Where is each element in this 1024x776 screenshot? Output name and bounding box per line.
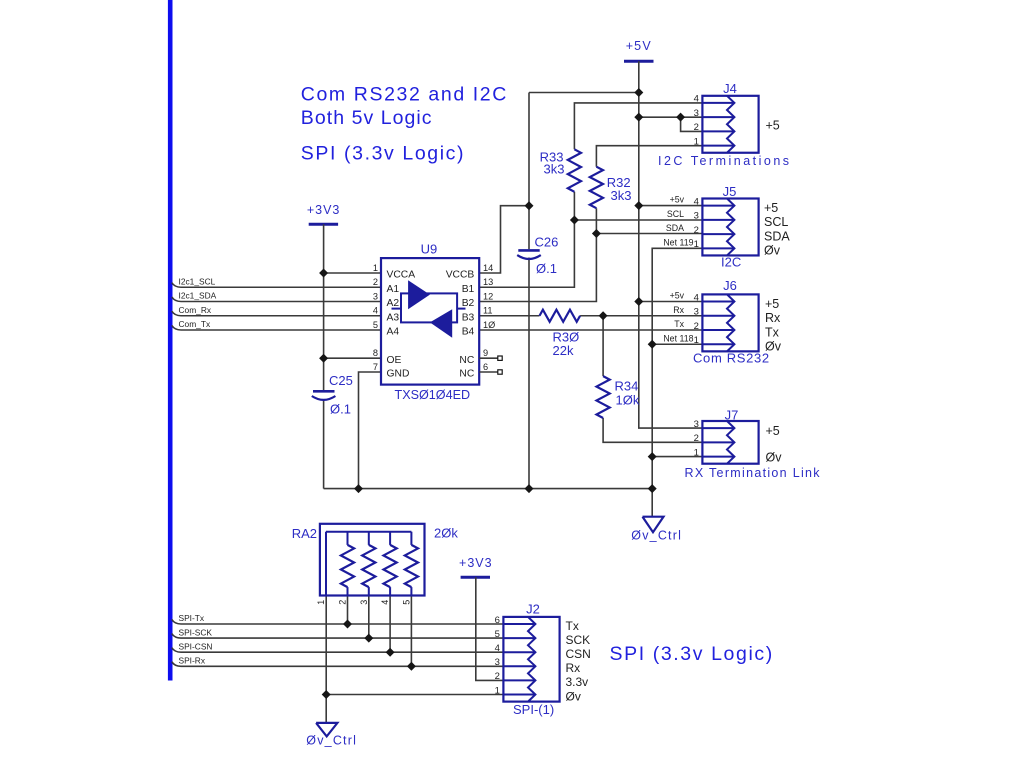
wire NC pin9 stub: [479, 356, 502, 360]
label J6 Øv: [765, 340, 782, 354]
svg-text:Øv: Øv: [766, 451, 783, 465]
label RX Termination Link: [685, 466, 821, 480]
label SPI-(1): [513, 702, 554, 717]
wire net rail: [652, 248, 702, 516]
wire +5V rail: [639, 61, 703, 428]
label J5: [723, 184, 737, 199]
junction 18: [364, 634, 373, 643]
resistor R32: [590, 167, 603, 209]
svg-text:Tx: Tx: [674, 319, 684, 329]
svg-text:3k3: 3k3: [611, 188, 632, 203]
svg-text:+3V3: +3V3: [459, 556, 493, 570]
label J2 Øv: [566, 689, 581, 703]
label J7 0v: [766, 451, 783, 465]
note Com RS232 and I2C: [301, 84, 508, 106]
label J2 SCK: [566, 633, 591, 647]
svg-text:Ø.1: Ø.1: [330, 402, 351, 417]
label J4: [723, 81, 737, 96]
wire 3V3 rail upper: [323, 224, 325, 390]
wire VCCB riser: [479, 206, 529, 273]
label J2 CSN: [566, 647, 591, 661]
note SPI (3.3v Logic) bottom: [610, 643, 774, 665]
connector J6: [694, 292, 759, 351]
junction 10: [599, 311, 608, 320]
label RA2: [292, 526, 317, 541]
wire bottom rail: [324, 488, 653, 490]
svg-text:VCCA: VCCA: [387, 270, 416, 281]
label J2 Rx: [566, 661, 581, 675]
svg-text:+5v: +5v: [670, 291, 685, 301]
svg-text:SPI-Rx: SPI-Rx: [179, 656, 206, 666]
svg-text:5: 5: [495, 629, 500, 640]
svg-text:Rx: Rx: [765, 311, 781, 325]
svg-text:1: 1: [694, 136, 699, 147]
svg-text:Øv: Øv: [566, 689, 581, 703]
wire J4 pin1 to R32: [596, 146, 702, 167]
svg-text:1: 1: [694, 239, 699, 250]
wire SCL: [574, 219, 702, 221]
wire left blue bus bar: [168, 0, 173, 681]
svg-text:Øv: Øv: [765, 340, 782, 354]
svg-text:2: 2: [495, 671, 500, 682]
label J5 I2C: [721, 255, 741, 270]
svg-text:SPI-SCK: SPI-SCK: [179, 627, 213, 637]
svg-text:SPI-Tx: SPI-Tx: [179, 613, 205, 623]
junction 5: [634, 201, 643, 210]
svg-text:C25: C25: [329, 373, 353, 388]
wire RA2 pin4 lead: [389, 596, 391, 653]
svg-text:TXSØ1Ø4ED: TXSØ1Ø4ED: [395, 388, 471, 402]
connector J2: [495, 615, 560, 702]
svg-text:SPI (3.3v Logic): SPI (3.3v Logic): [610, 643, 774, 665]
svg-text:SCK: SCK: [566, 633, 591, 647]
svg-text:J2: J2: [526, 602, 540, 617]
label C26 value: [536, 261, 557, 276]
svg-text:1: 1: [694, 335, 699, 346]
label R33: [540, 150, 564, 165]
junction 15: [525, 484, 534, 493]
svg-text:4: 4: [373, 306, 378, 316]
wire J7 pin1: [652, 456, 702, 458]
svg-text:A2: A2: [387, 298, 400, 309]
wire NC pin6 stub: [479, 370, 502, 374]
svg-text:SPI (3.3v Logic): SPI (3.3v Logic): [301, 143, 465, 165]
label J6 pin Rx: [673, 305, 684, 315]
svg-text:I2C Terminations: I2C Terminations: [658, 154, 792, 168]
label R34: [615, 379, 639, 394]
svg-text:8: 8: [373, 348, 378, 358]
svg-text:3: 3: [373, 291, 378, 301]
wire B4 to J6 pin2: [479, 329, 702, 331]
svg-text:9: 9: [483, 348, 488, 358]
label J6 pin Net 118: [663, 333, 693, 343]
label SPI-Rx: [179, 656, 206, 666]
svg-text:Com RS232: Com RS232: [693, 351, 770, 366]
svg-text:2: 2: [338, 600, 348, 605]
svg-text:1Ø: 1Ø: [483, 320, 495, 330]
wire J5 pin4: [639, 205, 703, 207]
svg-text:A4: A4: [387, 327, 400, 338]
svg-text:+3V3: +3V3: [307, 203, 341, 217]
resistor R34: [597, 376, 610, 418]
label J5 pin Net 119: [663, 238, 693, 248]
svg-text:1: 1: [316, 600, 326, 605]
label SPI-CSN: [179, 641, 213, 651]
label J5 pin +5v: [670, 195, 685, 205]
svg-text:B2: B2: [462, 298, 475, 309]
power +3V3 upper bar: [309, 223, 338, 226]
svg-text:1: 1: [694, 447, 699, 458]
svg-text:22k: 22k: [553, 343, 574, 358]
svg-text:RA2: RA2: [292, 526, 317, 541]
wire top link: [529, 92, 639, 94]
label 0v_Ctrl lower: [306, 734, 357, 748]
junction 20: [407, 662, 416, 671]
resistor array RA2: [316, 524, 425, 605]
svg-text:B4: B4: [462, 327, 475, 338]
junction 11: [648, 340, 657, 349]
wire 3V3 rail lower: [323, 400, 325, 489]
svg-text:A1: A1: [387, 284, 400, 295]
svg-text:4: 4: [495, 643, 500, 654]
label SPI-SCK: [179, 627, 213, 637]
svg-text:NC: NC: [459, 355, 474, 366]
label J2: [526, 602, 540, 617]
wire R33 to B1: [479, 192, 574, 287]
svg-text:+5: +5: [764, 201, 778, 215]
junction 6: [570, 216, 579, 225]
label U9: [421, 242, 438, 257]
power +3V3 lower label: [459, 556, 493, 570]
wire R34 to J7 pin2: [603, 418, 702, 442]
label J2 Tx: [566, 619, 579, 633]
svg-text:3: 3: [359, 600, 369, 605]
label I2c1_SCL: [179, 276, 216, 286]
svg-text:SDA: SDA: [764, 229, 790, 243]
note Both 5v Logic: [301, 107, 433, 129]
junction 14: [354, 484, 363, 493]
wire J4 pin3: [639, 116, 703, 118]
wire RA2 pin5 lead: [410, 596, 412, 667]
junction 8: [319, 269, 328, 278]
svg-text:4: 4: [694, 292, 699, 303]
junction 21: [322, 690, 331, 699]
wire SPI-Tx: [172, 619, 504, 624]
label J6 pin Tx: [674, 319, 684, 329]
label R30: [553, 330, 580, 345]
svg-text:B3: B3: [462, 312, 475, 323]
label Com RS232: [693, 351, 770, 366]
power +3V3 lower bar: [461, 576, 490, 579]
IC U9 TXS0104ED: [373, 258, 495, 385]
power +5V bar: [624, 60, 654, 63]
svg-text:+5: +5: [766, 119, 780, 133]
svg-text:Both 5v Logic: Both 5v Logic: [301, 107, 433, 129]
svg-text:Rx: Rx: [673, 305, 684, 315]
svg-text:2: 2: [694, 433, 699, 444]
wire C26 rail lower: [528, 258, 530, 489]
svg-text:2: 2: [694, 122, 699, 133]
svg-text:R34: R34: [615, 379, 639, 394]
svg-text:Com RS232 and I2C: Com RS232 and I2C: [301, 84, 508, 106]
label J6 Tx: [765, 325, 780, 339]
svg-text:SCL: SCL: [667, 209, 684, 219]
svg-text:3: 3: [694, 307, 699, 318]
svg-text:J6: J6: [723, 278, 737, 293]
svg-text:4: 4: [694, 94, 699, 105]
wire OE: [324, 357, 381, 359]
wire R30 to R34: [602, 316, 604, 376]
svg-text:11: 11: [483, 306, 493, 316]
wire RA2 pin2 lead: [347, 596, 349, 625]
label I2c1_SDA: [179, 291, 217, 301]
svg-text:J4: J4: [723, 81, 737, 96]
svg-text:I2c1_SDA: I2c1_SDA: [179, 291, 217, 301]
wire Com_Rx: [172, 311, 381, 316]
svg-text:1: 1: [495, 685, 500, 696]
label J7: [725, 408, 739, 423]
svg-text:12: 12: [483, 291, 493, 301]
connector J5: [694, 196, 759, 255]
junction 17: [343, 620, 352, 629]
svg-text:Øv_Ctrl: Øv_Ctrl: [631, 529, 682, 543]
label SPI-Tx: [179, 613, 205, 623]
wire R32 to B2: [479, 208, 596, 301]
power +5V label: [626, 39, 652, 53]
note SPI (3.3v Logic) top: [301, 143, 465, 165]
wire J6 pin1: [652, 343, 702, 345]
svg-text:C26: C26: [535, 235, 559, 250]
wire I2c1_SDA: [172, 297, 381, 302]
label J5 +5: [764, 201, 778, 215]
label I2C Terminations: [658, 154, 792, 168]
svg-text:OE: OE: [387, 355, 402, 366]
svg-text:J7: J7: [725, 408, 739, 423]
junction 13: [648, 452, 657, 461]
svg-text:NC: NC: [459, 369, 474, 380]
svg-text:Tx: Tx: [566, 619, 579, 633]
svg-text:7: 7: [373, 362, 378, 372]
label J5 pin SCL: [667, 209, 684, 219]
label C25 value: [330, 402, 351, 417]
junction 1: [634, 88, 643, 97]
svg-text:13: 13: [483, 277, 493, 287]
junction 12: [319, 354, 328, 363]
wire RA2 pin1 lead: [325, 596, 327, 723]
ground 0v_Ctrl lower: [316, 723, 337, 737]
junction 7: [592, 229, 601, 238]
svg-text:CSN: CSN: [566, 647, 591, 661]
junction 2: [634, 113, 643, 122]
junction 3: [676, 113, 685, 122]
connector J7: [694, 419, 759, 464]
label C26: [535, 235, 559, 250]
svg-text:Net 119: Net 119: [663, 238, 693, 248]
svg-text:Net 118: Net 118: [663, 333, 693, 343]
resistor R33: [568, 149, 581, 192]
svg-text:Com_Rx: Com_Rx: [179, 305, 212, 315]
svg-text:14: 14: [483, 263, 493, 273]
junction 19: [386, 648, 395, 657]
svg-text:I2C: I2C: [721, 255, 741, 270]
label J6 Rx: [765, 311, 781, 325]
wire GND drop: [359, 372, 382, 489]
svg-text:+5: +5: [766, 424, 780, 438]
svg-text:4: 4: [694, 196, 699, 207]
svg-text:Com_Tx: Com_Tx: [179, 319, 211, 329]
wire J4 pin2: [681, 117, 703, 131]
svg-text:Tx: Tx: [765, 325, 780, 339]
label R34 value: [616, 393, 640, 408]
svg-text:SCL: SCL: [764, 215, 788, 229]
label R30 value: [553, 343, 574, 358]
label J6 +5: [765, 297, 779, 311]
svg-text:4: 4: [380, 600, 390, 605]
svg-text:5: 5: [401, 600, 411, 605]
label R32: [607, 175, 631, 190]
svg-text:1Øk: 1Øk: [616, 393, 640, 408]
svg-text:3: 3: [694, 108, 699, 119]
svg-text:RX Termination Link: RX Termination Link: [685, 466, 821, 480]
label 0v_Ctrl upper: [631, 529, 682, 543]
svg-text:2: 2: [694, 321, 699, 332]
label J6 pin +5v: [670, 291, 685, 301]
svg-text:3k3: 3k3: [544, 161, 565, 176]
label J7 +5: [766, 424, 780, 438]
wire Com_Tx: [172, 325, 381, 330]
connector J4: [694, 94, 759, 153]
svg-text:Øv_Ctrl: Øv_Ctrl: [306, 734, 357, 748]
label J2 3.3v: [566, 675, 589, 689]
wire J6 pin4: [639, 301, 703, 303]
svg-text:3: 3: [495, 657, 500, 668]
label C25: [329, 373, 353, 388]
label J5 pin SDA: [666, 223, 684, 233]
wire 0v: [326, 694, 503, 696]
svg-text:SPI-(1): SPI-(1): [513, 702, 554, 717]
svg-text:3: 3: [694, 419, 699, 430]
svg-text:3: 3: [694, 211, 699, 222]
label TXS0104ED: [395, 388, 471, 402]
svg-text:+5: +5: [765, 297, 779, 311]
wire SPI-CSN: [172, 648, 504, 653]
svg-text:5: 5: [373, 320, 378, 330]
wire VCCA pin1: [324, 272, 381, 274]
svg-text:2Øk: 2Øk: [434, 526, 458, 541]
svg-text:U9: U9: [421, 242, 438, 257]
label R32 value: [611, 188, 632, 203]
svg-text:J5: J5: [723, 184, 737, 199]
svg-text:+5v: +5v: [670, 195, 685, 205]
svg-text:+5V: +5V: [626, 39, 652, 53]
svg-text:1: 1: [373, 263, 378, 273]
junction 9: [634, 297, 643, 306]
svg-text:2: 2: [373, 277, 378, 287]
label J5 SDA: [764, 229, 790, 243]
resistor R30: [540, 310, 581, 322]
svg-text:Øv: Øv: [764, 244, 781, 258]
ground 0v_Ctrl upper: [643, 517, 664, 533]
wire J4 pin4 to R33: [574, 103, 702, 149]
svg-text:VCCB: VCCB: [446, 270, 475, 281]
svg-text:GND: GND: [387, 369, 410, 380]
capacitor C25: [312, 391, 336, 400]
svg-text:6: 6: [495, 615, 500, 626]
power +3V3 upper label: [307, 203, 341, 217]
svg-text:B1: B1: [462, 284, 475, 295]
junction 4: [525, 201, 534, 210]
wire C26 rail upper: [528, 93, 530, 250]
wire B3 to R30: [479, 315, 539, 317]
svg-text:SDA: SDA: [666, 223, 684, 233]
wire I2c1_SCL: [172, 283, 381, 288]
label J4 +5: [766, 119, 780, 133]
label J5 SCL: [764, 215, 788, 229]
wire SDA: [596, 233, 702, 235]
wire RA2 pin3 lead: [368, 596, 370, 639]
label RA2 value: [434, 526, 458, 541]
svg-text:SPI-CSN: SPI-CSN: [179, 641, 213, 651]
svg-text:I2c1_SCL: I2c1_SCL: [179, 276, 216, 286]
wire 3V3 to J2 pin2: [476, 577, 504, 680]
svg-text:Rx: Rx: [566, 661, 581, 675]
capacitor C26: [517, 250, 541, 259]
wire SPI-Rx: [172, 662, 504, 667]
wire R30 to J6 pin3: [580, 315, 702, 317]
label Com_Tx: [179, 319, 211, 329]
wire SPI-SCK: [172, 634, 504, 639]
label Com_Rx: [179, 305, 212, 315]
svg-text:6: 6: [483, 362, 488, 372]
svg-text:A3: A3: [387, 312, 400, 323]
label J6: [723, 278, 737, 293]
svg-text:3.3v: 3.3v: [566, 675, 589, 689]
junction 16: [648, 484, 657, 493]
svg-text:Ø.1: Ø.1: [536, 261, 557, 276]
svg-text:2: 2: [694, 225, 699, 236]
label R33 value: [544, 161, 565, 176]
label J5 Øv: [764, 244, 781, 258]
